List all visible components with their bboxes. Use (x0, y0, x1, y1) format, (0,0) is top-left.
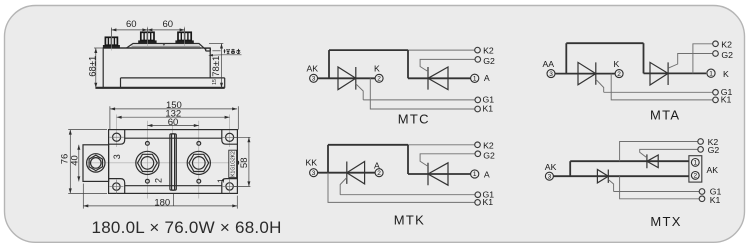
svg-text:MTX: MTX (650, 214, 681, 229)
terminal G1 (475, 97, 481, 103)
dim 68+-1 top extension (94, 47, 103, 49)
svg-text:K1: K1 (483, 197, 494, 207)
base plate step vertical (120, 78, 122, 88)
terminal box (689, 156, 702, 182)
dim 150 line (110, 108, 237, 110)
terminal 1 inner circle (193, 157, 206, 170)
dim 76 line (69, 130, 71, 194)
top rail (thick) (329, 49, 408, 51)
hole BR crosshair (223, 179, 237, 193)
gate 1 wire (340, 178, 347, 195)
K1 branch (611, 74, 713, 100)
gate 2 wire (420, 154, 475, 167)
svg-text:K: K (723, 69, 729, 79)
svg-text:1: 1 (216, 178, 226, 183)
svg-text:MTK: MTK (394, 212, 425, 227)
dim 132 line (117, 116, 230, 118)
dim 40 arrows (77, 145, 80, 182)
terminal G2 (475, 57, 481, 63)
terminal 2 vertical centerline (146, 121, 148, 199)
svg-text:K1: K1 (721, 95, 732, 105)
hole centerline left (116, 115, 118, 148)
center divider slot outer (170, 134, 176, 190)
corner pad top-right (222, 130, 238, 145)
svg-text:60: 60 (168, 117, 179, 128)
gate 2 wire (420, 59, 475, 71)
svg-text:AK: AK (307, 64, 319, 74)
svg-text:G2: G2 (483, 151, 495, 161)
node 1 (A) (471, 170, 479, 178)
control gate label 控制极 (drawn glyphs) (224, 49, 241, 54)
dim 60 arrows (plan) (147, 124, 198, 127)
svg-text:1: 1 (693, 160, 697, 167)
G1 rail (614, 191, 700, 193)
terminal 2 outer circle (136, 151, 159, 174)
riser to upper rail (569, 161, 571, 176)
node 3 (AK) (310, 74, 318, 82)
G2 wire (668, 54, 712, 69)
hole centerline right (229, 115, 231, 148)
dim 58 arrows (247, 137, 250, 186)
bolt 1 knurls (108, 37, 114, 45)
bolt 2 (middle) flange (138, 40, 156, 43)
wire AK to thyristor 1 (317, 77, 375, 79)
K1G1G2K2 box (229, 150, 237, 177)
bolt 1 nut (105, 37, 117, 45)
gate pin hole 1b (197, 179, 201, 183)
node 3 (AA) (547, 70, 555, 78)
control gate leader (211, 54, 241, 56)
bolt 3 centerline (184, 27, 186, 48)
terminal K1 (713, 97, 719, 103)
terminal G2 (713, 51, 719, 57)
top rail to K2 (thin) (408, 49, 475, 51)
thyristor 2 (anode left) (650, 62, 668, 85)
svg-text:3: 3 (312, 170, 316, 177)
gate 1 wire (608, 180, 613, 192)
svg-text:60: 60 (163, 19, 174, 30)
bolt 2 knurls (144, 32, 151, 40)
gate pin hole 2a (146, 142, 150, 146)
svg-text:K2: K2 (483, 46, 494, 56)
base top extension for 15 (210, 77, 223, 79)
top rail (566, 42, 643, 44)
riser to thyristor 2 anode (643, 43, 645, 73)
corner pad bottom-left (109, 179, 125, 194)
wire AA to thyristor 1 (555, 73, 616, 75)
svg-text:G2: G2 (708, 145, 720, 155)
svg-text:68±1: 68±1 (88, 56, 99, 77)
base plate right edge (224, 78, 226, 88)
dim 180 line (83, 205, 237, 207)
riser AA to top rail (565, 43, 567, 73)
svg-text:3: 3 (112, 154, 122, 159)
upper rail (570, 160, 689, 162)
svg-text:K: K (374, 64, 380, 74)
terminal K2 (475, 142, 481, 148)
riser AK to top rail (328, 50, 330, 78)
svg-text:AK: AK (545, 162, 557, 172)
bottom inner band line (125, 185, 222, 187)
K1 branch (620, 176, 700, 199)
node 2 in box (691, 172, 699, 180)
svg-text:2: 2 (377, 76, 381, 83)
center divider slot inner (172, 134, 175, 190)
module body outline (103, 48, 210, 88)
thyristor 2 upper (cathode left, small) (647, 154, 658, 168)
dim 78+-1 arrows (220, 44, 223, 88)
corner pad bottom-right (222, 179, 238, 194)
svg-text:2: 2 (377, 170, 381, 177)
bolt 3 knurls (181, 32, 188, 40)
terminal 1 vertical centerline (198, 121, 200, 199)
gate 1 wire to G1 rail (356, 84, 363, 100)
svg-text:180: 180 (154, 197, 170, 208)
hole BL crosshair (109, 180, 123, 194)
wire thyristor 2 to A (408, 77, 471, 79)
K2 wire (620, 142, 698, 162)
terminal K2 (698, 139, 704, 145)
G2 wire (640, 149, 698, 157)
svg-text:K2: K2 (721, 39, 732, 49)
dim 68+-1 line (95, 48, 97, 88)
svg-text:15: 15 (212, 79, 218, 85)
hole TR crosshair (222, 136, 236, 138)
dim 180 extensions (83, 184, 237, 209)
terminal K1 (699, 196, 705, 202)
svg-text:AK: AK (707, 165, 719, 175)
svg-text:G2: G2 (483, 56, 495, 66)
dim 78+-1 line (221, 44, 223, 88)
riser K2 to thyristor 2 (407, 50, 409, 78)
mounting hole TL (113, 133, 121, 141)
cap inner line (132, 45, 201, 47)
top rail to K2 (thin) (408, 144, 475, 146)
svg-text:MTA: MTA (650, 107, 680, 122)
wire KK to thyristor 1 (317, 172, 375, 174)
terminal G2 (698, 147, 704, 153)
svg-text:G2: G2 (721, 50, 733, 60)
node 2 (A) (375, 169, 383, 177)
node 1 (K) (707, 69, 715, 77)
svg-text:K1G1G2K2: K1G1G2K2 (231, 151, 237, 177)
node 1 in box (691, 159, 699, 167)
wire thyristor 2 to K terminal (644, 72, 707, 74)
svg-text:78±1: 78±1 (211, 56, 222, 77)
thyristor 1 (cathode left) (347, 162, 365, 184)
svg-text:2: 2 (617, 71, 621, 78)
dim 132 arrows (117, 116, 230, 119)
corner pad top-left (109, 130, 125, 145)
mounting hole BL (113, 183, 120, 190)
terminal G1 (475, 192, 481, 198)
left tab (83, 145, 109, 182)
cap notch (163, 44, 165, 46)
svg-text:2: 2 (693, 173, 697, 180)
node 3 (KK) (310, 169, 318, 177)
svg-text:2: 2 (154, 178, 164, 183)
base plate bottom (thick) (95, 87, 224, 89)
terminal G1 (699, 189, 705, 195)
gate pin hole 2b (146, 179, 150, 183)
svg-text:A: A (484, 73, 490, 83)
terminal K2 (713, 41, 719, 47)
gate pin hole 1a (197, 142, 201, 146)
bolt 3 nut (178, 32, 191, 40)
dim 150 arrows (110, 107, 237, 110)
dim 76 arrows (69, 130, 72, 194)
svg-text:AA: AA (543, 59, 555, 69)
thyristor 2 (cathode left) (428, 163, 448, 185)
dim 40 line (78, 145, 80, 182)
G1 rail (340, 194, 475, 196)
bolt 2 nut (141, 32, 154, 40)
svg-text:K1: K1 (483, 104, 494, 114)
top rail (thick) (328, 144, 408, 146)
dim 60 line (plan) (147, 125, 198, 127)
riser KK to top rail (327, 145, 329, 173)
tab terminal hex (89, 155, 102, 170)
plan horizontal centerline (86, 162, 244, 164)
plan body outline (109, 130, 238, 194)
dim 58 extensions (234, 137, 251, 186)
svg-text:58: 58 (239, 158, 250, 169)
slot bottom extension (172, 194, 174, 206)
thyristor 1 lower (anode left, small) (597, 170, 608, 183)
svg-text:A: A (484, 170, 490, 180)
dim 60-60 extension lines (111, 28, 184, 37)
control gate leader arrow (208, 54, 213, 57)
riser K2 to thyristor 2 (407, 145, 409, 174)
svg-text:K: K (614, 59, 620, 69)
svg-text:180.0L × 76.0W × 68.0H: 180.0L × 76.0W × 68.0H (92, 218, 282, 237)
bolt 3 (right) flange (175, 40, 193, 43)
svg-text:60: 60 (126, 19, 137, 30)
svg-text:3: 3 (549, 71, 553, 78)
svg-text:3: 3 (312, 76, 316, 83)
gate pin (side) (206, 48, 211, 51)
terminal 1 outer circle (187, 151, 210, 174)
top inner band line (125, 137, 222, 139)
node 3 (AK) (545, 172, 553, 180)
terminal K2 (475, 47, 481, 53)
gate 1 wire (596, 79, 604, 92)
svg-text:1: 1 (473, 171, 477, 178)
K1 branch wire (370, 78, 475, 109)
svg-text:3: 3 (548, 173, 552, 180)
terminal G2 (475, 151, 481, 157)
base plate top line (121, 77, 225, 79)
node 2 (K) (615, 70, 623, 78)
lower wire AK to box (553, 175, 689, 177)
hole TL crosshair (109, 136, 123, 138)
body top line (103, 47, 201, 49)
bolt 1 (left) flange (103, 45, 120, 48)
bolt 2 centerline (146, 27, 148, 48)
K2 wire (693, 44, 713, 74)
terminal 2 hex (138, 154, 158, 171)
bolt 1 centerline (110, 28, 112, 51)
node 1 (A) (471, 74, 479, 82)
thyristor 1 (anode left) (338, 67, 356, 90)
dim 78+-1 top extension (209, 43, 223, 45)
svg-text:K2: K2 (483, 141, 494, 151)
svg-text:1: 1 (473, 76, 477, 83)
cap top (127, 44, 207, 50)
terminal G1 (713, 90, 719, 96)
svg-text:40: 40 (69, 155, 80, 166)
svg-text:1: 1 (709, 70, 713, 77)
mounting hole BR (226, 183, 233, 190)
wire thyristor 2 to A (408, 173, 471, 175)
thyristor 2 (cathode left) (428, 67, 448, 90)
thyristor 1 (anode left) (578, 62, 596, 84)
tab terminal inner circle (91, 158, 102, 169)
dim arrows 60-60 (111, 28, 184, 31)
G1 rail (604, 91, 713, 93)
terminal 2 inner circle (141, 157, 154, 170)
dim 180 arrows (83, 204, 237, 207)
terminal 1 hex (189, 154, 209, 171)
svg-text:MTC: MTC (398, 111, 430, 126)
svg-text:KK: KK (306, 158, 318, 168)
node 2 (K) (375, 74, 383, 82)
dim 58 line (248, 137, 250, 186)
dim 150 extensions (110, 106, 238, 129)
svg-text:K1: K1 (710, 195, 721, 205)
K1 drop from KK node (328, 173, 475, 203)
terminal mark nub (237, 161, 239, 165)
slot centerline (171, 121, 173, 134)
tab terminal outer circle (87, 154, 105, 172)
dim 68+-1 arrows (94, 48, 97, 88)
terminal K1 (475, 106, 481, 112)
dim 76 extensions (68, 130, 107, 194)
mounting hole TR (226, 133, 234, 141)
G1 rail (363, 99, 475, 101)
dim 60-60 line (111, 29, 184, 31)
terminal K1 (475, 200, 481, 206)
